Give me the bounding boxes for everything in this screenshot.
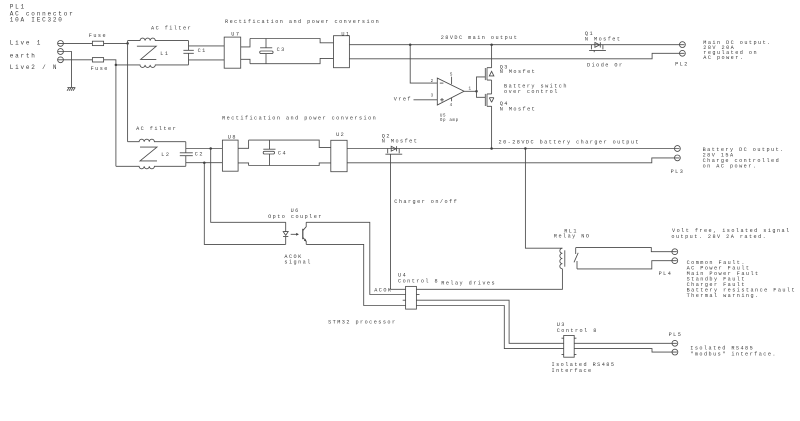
AC filter L1 core Z symbol bbox=[137, 46, 156, 59]
svg-text:U2: U2 bbox=[336, 132, 345, 138]
transistor Q1 diode symbol bbox=[595, 42, 600, 47]
label Isolated RS485 Interface bbox=[552, 362, 616, 374]
svg-text:C4: C4 bbox=[278, 151, 287, 157]
relay RL1 NO contact bbox=[574, 248, 578, 269]
title label PL1 AC connector 10A IEC320 bbox=[10, 4, 75, 24]
svg-text:Op amp: Op amp bbox=[440, 119, 459, 123]
svg-text:Thermal warning.: Thermal warning. bbox=[687, 293, 760, 299]
wire U8 output upper to link rectangle bbox=[238, 140, 249, 148]
transistor Q2 diode symbol bbox=[391, 146, 396, 151]
svg-text:1: 1 bbox=[469, 88, 472, 92]
wire Vref to op-amp non-inverting input bbox=[414, 99, 438, 101]
connector PL1 pin earth bbox=[58, 49, 64, 55]
label Q2 N Mosfet bbox=[382, 133, 419, 144]
U4 right stub pin bbox=[416, 294, 419, 296]
svg-text:Relay drives: Relay drives bbox=[441, 280, 496, 286]
op-amp U5 pin 5 stub bbox=[451, 77, 453, 85]
svg-text:Opto coupler: Opto coupler bbox=[268, 214, 323, 220]
relay RL1 core bar bbox=[564, 250, 566, 266]
label Q1 N Mosfet bbox=[585, 31, 622, 42]
capacitor C4 bottom plate (polarized) bbox=[263, 151, 274, 154]
svg-text:AC filter: AC filter bbox=[136, 126, 177, 132]
svg-text:L1: L1 bbox=[160, 51, 169, 57]
op-amp U5 plus sign bbox=[440, 98, 444, 102]
op-amp U5 minus sign bbox=[440, 82, 444, 84]
svg-text:C2: C2 bbox=[195, 152, 204, 158]
svg-text:N Mosfet: N Mosfet bbox=[500, 106, 537, 112]
label U6 Opto coupler bbox=[268, 208, 323, 220]
capacitor C3 bottom plate (polarized) bbox=[260, 51, 273, 54]
opto U6 emitter arrow head bbox=[304, 239, 307, 242]
wire relay contact top to PL4 bbox=[576, 248, 677, 252]
AC filter L2 bottom edge with choke winding bbox=[116, 166, 186, 169]
wire opto emitter to U4 bbox=[306, 244, 405, 305]
wire charger return to opto LED cathode bbox=[204, 163, 285, 245]
connector PL2 pin 2 bbox=[680, 50, 686, 56]
label Q4 N Mosfet bbox=[500, 101, 537, 112]
transistor Q4 source arrow bbox=[489, 98, 494, 103]
junction charger upper to opto feed bbox=[209, 147, 212, 150]
svg-text:PL3: PL3 bbox=[671, 169, 685, 175]
wire U4 to U3 lower bbox=[416, 306, 563, 349]
svg-text:Live 1: Live 1 bbox=[10, 40, 42, 47]
note Battery DC output bbox=[703, 147, 785, 170]
note Volt free isolated signal output bbox=[671, 228, 790, 240]
svg-text:Control 8: Control 8 bbox=[398, 278, 439, 284]
capacitor C3 bottom lead bbox=[265, 54, 267, 64]
label RL1 Relay NO bbox=[554, 229, 591, 240]
svg-text:C1: C1 bbox=[198, 48, 207, 54]
capacitor C2 plates bbox=[180, 153, 193, 156]
junction neutral feed node bbox=[115, 64, 118, 67]
svg-text:10A IEC320: 10A IEC320 bbox=[10, 17, 64, 24]
label U3 Control B bbox=[557, 322, 598, 334]
wire link bottom edge U8 to U2 bbox=[249, 163, 331, 166]
svg-text:Vref: Vref bbox=[394, 96, 412, 102]
svg-text:over control: over control bbox=[504, 89, 559, 95]
AC filter L1 right edge / C1 connection bbox=[188, 41, 190, 65]
rectifier U7 body bbox=[224, 37, 241, 68]
svg-text:N Mosfet: N Mosfet bbox=[585, 36, 622, 42]
fuse F1 body bbox=[92, 41, 103, 45]
label Q3 N Mosfet bbox=[500, 64, 537, 75]
wire opto collector to U4 bbox=[306, 222, 405, 294]
transistor Q4 channel and stubs bbox=[487, 94, 492, 106]
opto U6 light arrow head bbox=[296, 233, 299, 236]
wire gate drive branch to Q3 and Q4 bbox=[477, 77, 486, 97]
wire op-amp output bbox=[464, 90, 476, 92]
wire filter2 to U8 upper bbox=[186, 148, 223, 150]
wire battery charger output rail bbox=[347, 148, 679, 150]
wire U3 to PL5 lower bbox=[574, 349, 677, 353]
svg-text:U7: U7 bbox=[231, 31, 240, 37]
ground chassis symbol bbox=[67, 88, 75, 91]
svg-text:3: 3 bbox=[431, 94, 434, 98]
opto U6 LED bbox=[283, 222, 288, 244]
transistor Q2 gate bar bbox=[385, 153, 402, 155]
capacitor C1 plates bbox=[183, 50, 193, 53]
wire filter2 to U8 lower bbox=[186, 162, 223, 164]
junction op-amp output node bbox=[475, 90, 478, 93]
transistor Q1 channel legs bbox=[591, 45, 603, 50]
svg-text:"modbus" interface.: "modbus" interface. bbox=[690, 351, 777, 357]
wire fuse F2 to neutral feed node bbox=[104, 60, 116, 65]
junction charger rail to Q4 source bbox=[490, 147, 493, 150]
svg-text:on AC power.: on AC power. bbox=[703, 163, 758, 169]
AC filter L2 right edge / C2 connection bbox=[185, 142, 187, 167]
svg-text:Relay NO: Relay NO bbox=[554, 233, 591, 239]
wire Q2 gate / charger on-off control to U4 bbox=[391, 154, 406, 289]
wire Q3 Q4 series chain bbox=[491, 45, 493, 149]
wire main return rail to PL2 bbox=[349, 53, 684, 59]
junction charger rail to relay coil feed bbox=[524, 147, 527, 150]
wire neutral feed vertical to AC filter 2 bbox=[115, 65, 117, 166]
svg-text:Rectification and power conver: Rectification and power conversion bbox=[222, 115, 377, 121]
fuse F2 body bbox=[92, 58, 103, 62]
label U4 Control B bbox=[398, 272, 439, 284]
AC filter L1 top edge with choke winding bbox=[128, 38, 189, 41]
svg-text:Rectification and power conver: Rectification and power conversion bbox=[225, 19, 380, 25]
transistor Q2 channel legs bbox=[388, 149, 400, 154]
wire relay contact bottom to PL4 bbox=[577, 261, 677, 269]
connector PL4 pin 1 bbox=[672, 249, 678, 255]
capacitor C3 top lead bbox=[265, 39, 267, 48]
wire U4 to U3 upper bbox=[416, 300, 563, 343]
connector PL5 pin 2 bbox=[672, 349, 678, 355]
junction live feed node bbox=[126, 42, 129, 45]
AC filter L1 bottom edge with choke winding bbox=[116, 65, 189, 68]
label U5 Op amp bbox=[440, 114, 459, 123]
wire link top edge U7 to U1 bbox=[250, 39, 334, 43]
connector PL4 pin 2 bbox=[672, 258, 678, 264]
svg-text:PL2: PL2 bbox=[675, 62, 689, 68]
wire link bottom edge U7 to U1 bbox=[250, 58, 334, 63]
connector PL3 pin 2 bbox=[675, 155, 681, 161]
wire fuse F1 to live feed node bbox=[104, 42, 128, 44]
svg-text:2: 2 bbox=[431, 80, 434, 84]
U4 left stub pin bbox=[403, 299, 406, 301]
wire Live2 pin to fuse F2 bbox=[58, 59, 93, 61]
svg-text:signal: signal bbox=[284, 260, 311, 266]
transistor Q3 source arrow bbox=[489, 71, 494, 76]
wire U7 output upper to link rectangle bbox=[241, 39, 250, 47]
wire 28VDC main output rail bbox=[349, 44, 684, 46]
label ACOK signal bbox=[284, 254, 311, 266]
wire filter1 to U7 upper bbox=[189, 45, 225, 47]
transistor Q1 gate stub bbox=[593, 50, 595, 52]
note Isolated RS485 modbus interface bbox=[690, 345, 777, 357]
svg-text:20-28VDC battery charger outpu: 20-28VDC battery charger output bbox=[499, 139, 640, 145]
svg-text:N Mosfet: N Mosfet bbox=[382, 139, 419, 145]
svg-text:5: 5 bbox=[450, 74, 453, 78]
connector PL5 pin 1 bbox=[672, 340, 678, 346]
svg-text:AC power.: AC power. bbox=[703, 55, 744, 61]
junction main rail to Q3 drain bbox=[490, 43, 493, 46]
wire filter1 to U7 lower bbox=[189, 59, 225, 61]
svg-text:STM32 processor: STM32 processor bbox=[328, 319, 396, 325]
junction main rail to op-amp sense bbox=[409, 43, 412, 46]
wire main rail sense to op-amp inverting input bbox=[410, 45, 437, 83]
relay RL1 coil winding bbox=[560, 248, 563, 269]
note Main DC output bbox=[703, 40, 771, 61]
wire charger return rail to PL3 bbox=[347, 158, 679, 163]
wire charger rail to relay coil top bbox=[525, 149, 562, 249]
opto U6 light arrow bbox=[291, 233, 297, 235]
svg-text:Interface: Interface bbox=[552, 368, 593, 374]
svg-text:output. 28V 2A rated.: output. 28V 2A rated. bbox=[671, 234, 767, 240]
wire earth pin to ground bbox=[58, 52, 72, 88]
junction charger lower to opto return bbox=[203, 161, 206, 164]
wire link top edge U8 to U2 bbox=[249, 140, 331, 147]
svg-text:Control 8: Control 8 bbox=[557, 328, 598, 334]
converter U2 body bbox=[331, 140, 347, 171]
svg-text:earth: earth bbox=[10, 53, 37, 60]
interface U3 body bbox=[564, 336, 575, 358]
AC filter L2 core Z symbol bbox=[140, 147, 157, 161]
wire U8 output lower to link rectangle bbox=[238, 163, 249, 166]
note fault list bbox=[687, 260, 797, 299]
connector PL2 pin 1 bbox=[680, 42, 686, 48]
svg-text:4: 4 bbox=[450, 104, 453, 108]
transistor Q4 gate bar bbox=[484, 94, 486, 106]
connector PL1 pin Live2/N bbox=[58, 57, 64, 63]
transistor Q3 channel and stubs bbox=[487, 68, 492, 80]
op-amp U5 triangle bbox=[437, 78, 464, 105]
wire U4 relay drive to RL1 coil bbox=[416, 269, 562, 290]
svg-text:C3: C3 bbox=[277, 47, 286, 53]
capacitor C4 top lead bbox=[269, 140, 271, 149]
processor U4 body bbox=[406, 286, 417, 309]
wire U7 output lower to link rectangle bbox=[241, 59, 250, 63]
svg-text:PL5: PL5 bbox=[669, 332, 683, 338]
wire U3 to PL5 upper bbox=[574, 342, 677, 344]
wire live feed vertical to AC filter 2 bbox=[127, 41, 129, 142]
svg-text:ACOK: ACOK bbox=[374, 288, 392, 294]
svg-text:28VDC main output: 28VDC main output bbox=[441, 35, 519, 41]
svg-text:PL4: PL4 bbox=[659, 271, 673, 277]
connector PL1 pin Live1 bbox=[58, 41, 64, 47]
svg-text:U5: U5 bbox=[440, 114, 446, 118]
svg-text:U8: U8 bbox=[228, 135, 237, 141]
op-amp U5 pin 4 stub bbox=[451, 98, 453, 102]
svg-text:Fuse: Fuse bbox=[91, 66, 109, 72]
wire charger rail to opto LED anode bbox=[211, 149, 286, 223]
AC filter L2 top edge with choke winding bbox=[128, 139, 186, 142]
svg-text:N Mosfet: N Mosfet bbox=[500, 69, 537, 75]
transistor Q1 gate bar bbox=[589, 49, 606, 51]
svg-text:Fuse: Fuse bbox=[89, 33, 107, 39]
svg-text:Diode Or: Diode Or bbox=[587, 63, 624, 69]
svg-text:AC filter: AC filter bbox=[151, 26, 192, 32]
svg-text:L2: L2 bbox=[161, 152, 170, 158]
wire Live1 pin to fuse F1 bbox=[58, 42, 93, 44]
capacitor C4 bottom lead bbox=[269, 154, 271, 166]
svg-text:Charger on/off: Charger on/off bbox=[394, 199, 458, 205]
opto U6 phototransistor bbox=[302, 229, 304, 239]
capacitor C3 top plate bbox=[260, 47, 272, 49]
capacitor C4 top plate bbox=[263, 148, 275, 150]
connector PL3 pin 1 bbox=[675, 146, 681, 152]
transistor Q3 gate bar bbox=[484, 68, 486, 80]
U3 corner stub pins bbox=[562, 338, 577, 354]
note Battery switch over control bbox=[504, 84, 568, 96]
rectifier U8 body bbox=[222, 140, 238, 171]
converter U1 body bbox=[334, 36, 350, 68]
svg-text:Live2 / N: Live2 / N bbox=[10, 64, 59, 71]
